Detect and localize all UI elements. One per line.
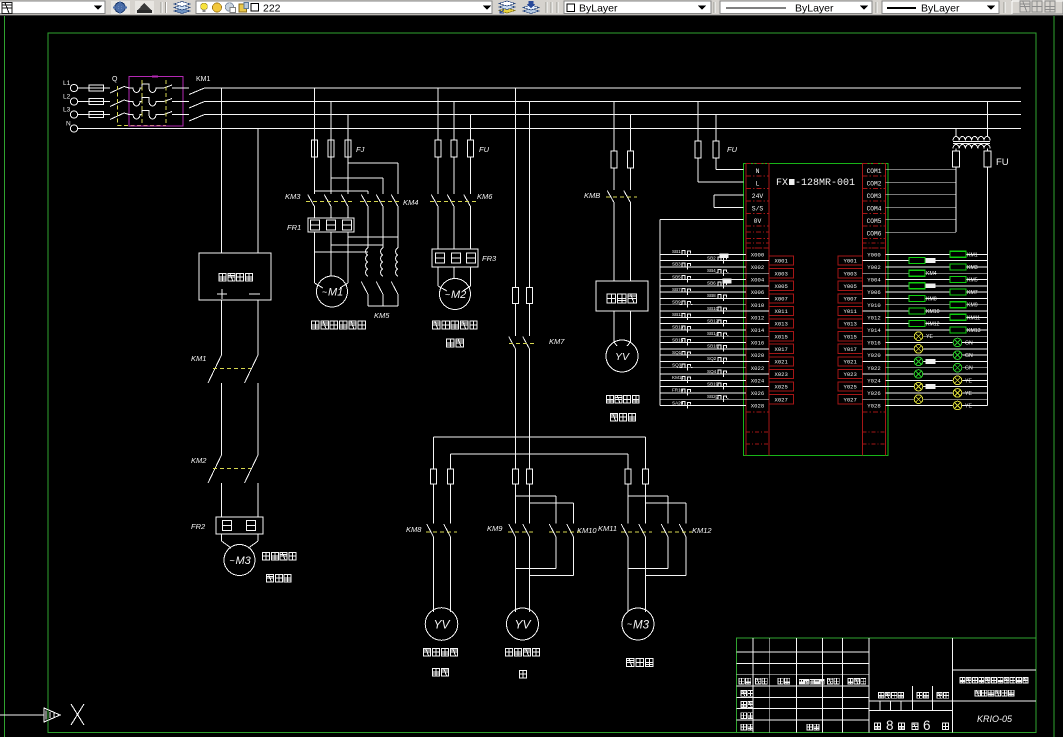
input wire row X6 with contact SB7 <box>660 291 746 293</box>
svg-text:Y012: Y012 <box>867 314 880 321</box>
svg-text:SB4: SB4 <box>707 268 716 273</box>
input wire row X3 with contact SB4 <box>660 272 769 274</box>
toolbar gear icon <box>111 1 130 14</box>
svg-text:X013: X013 <box>774 321 787 328</box>
fuses FJ <box>312 140 318 157</box>
junction block marker <box>723 278 732 283</box>
PLC X input terminals odd <box>769 256 794 265</box>
svg-text:8: 8 <box>886 718 894 733</box>
fuse L3 <box>78 114 89 116</box>
wires KM7 down <box>515 350 517 438</box>
svg-text:FX: FX <box>776 178 788 189</box>
fuses lower branches <box>431 469 437 484</box>
terminal N <box>70 125 77 132</box>
color control combo <box>564 1 711 14</box>
svg-text:KM12: KM12 <box>926 322 940 328</box>
fuses FU (M2) <box>435 140 441 157</box>
svg-text:-128MR-001: -128MR-001 <box>795 178 855 189</box>
svg-text:KM5: KM5 <box>374 311 390 320</box>
svg-text:SB16: SB16 <box>707 344 719 349</box>
motor M2 auxiliary compressor <box>440 279 471 310</box>
svg-text:~: ~ <box>230 556 235 566</box>
svg-text:X016: X016 <box>751 340 764 347</box>
svg-text:ByLayer: ByLayer <box>579 3 618 15</box>
svg-text:Y011: Y011 <box>843 308 857 315</box>
svg-text:SB2: SB2 <box>707 255 716 260</box>
svg-text:Y014: Y014 <box>867 327 881 334</box>
breaker linkage dashed <box>141 80 143 126</box>
layer tool icon 2 <box>523 9 539 14</box>
svg-text:FR10: FR10 <box>672 388 684 393</box>
svg-text:Y007: Y007 <box>843 296 856 303</box>
svg-text:Y022: Y022 <box>867 365 880 372</box>
svg-text:GN: GN <box>965 366 973 372</box>
PLC FX-128MR outline <box>744 164 888 456</box>
COM wires <box>886 169 957 171</box>
KM1 linkage <box>213 368 251 370</box>
svg-text:YE: YE <box>965 404 972 410</box>
wire battery out <box>221 300 223 355</box>
svg-text:COM5: COM5 <box>867 218 882 225</box>
layers stack icon <box>174 9 190 14</box>
svg-text:FJ: FJ <box>356 145 365 154</box>
svg-text:KM1: KM1 <box>967 252 978 258</box>
svg-text:X006: X006 <box>751 289 764 296</box>
svg-text:KM1: KM1 <box>191 354 206 363</box>
svg-text:Y016: Y016 <box>867 340 880 347</box>
drawing title text <box>960 678 965 683</box>
svg-text:KM10: KM10 <box>926 309 940 315</box>
terminal L2 <box>70 98 77 105</box>
wires KM11 to feeder motor <box>627 538 629 613</box>
svg-text:COM6: COM6 <box>867 230 882 237</box>
input wire row X5 with contact SB6 <box>660 285 769 287</box>
svg-text:SB12: SB12 <box>707 318 719 323</box>
svg-text:X003: X003 <box>774 270 787 277</box>
input wire row X12 with contact SB13 <box>660 329 746 331</box>
svg-text:L2: L2 <box>63 94 71 101</box>
svg-text:SB14: SB14 <box>707 331 719 336</box>
svg-text:M2: M2 <box>451 289 466 301</box>
svg-text:X015: X015 <box>774 333 787 340</box>
wire transformer primary taps <box>955 129 957 137</box>
output wire row Y21 indicator lamp <box>863 386 988 388</box>
svg-text:YE: YE <box>926 334 933 340</box>
svg-text:SQ1: SQ1 <box>672 350 682 355</box>
fuse FU (PLC L) <box>695 141 701 158</box>
svg-text:Y006: Y006 <box>867 289 880 296</box>
toolbar background <box>0 0 1063 16</box>
svg-text:KM11: KM11 <box>598 524 617 533</box>
wires KM8 to YV1 <box>433 538 435 613</box>
svg-text:KM8: KM8 <box>406 525 422 534</box>
fuse FU (transformer right) <box>984 151 991 167</box>
svg-text:COM2: COM2 <box>867 180 882 187</box>
svg-text:N: N <box>756 168 760 175</box>
svg-text:SB8: SB8 <box>707 293 716 298</box>
wire battery tap N <box>257 129 259 254</box>
svg-text:KM1: KM1 <box>196 76 211 83</box>
svg-text:X022: X022 <box>751 365 764 372</box>
svg-text:KM10: KM10 <box>577 526 597 535</box>
svg-text:KM2: KM2 <box>191 456 207 465</box>
output wire row Y20 indicator lamp <box>886 379 988 381</box>
pilot solenoid valve YV1 <box>425 608 458 641</box>
svg-text:X001: X001 <box>774 258 788 265</box>
outer border right <box>1053 16 1055 737</box>
fuses (KM7 branch) <box>513 288 519 304</box>
svg-text:FU: FU <box>727 145 738 154</box>
bus L2 <box>222 101 1021 103</box>
svg-text:Y002: Y002 <box>867 264 880 271</box>
fuse FU (transformer left) <box>953 151 960 167</box>
svg-text:KM5: KM5 <box>967 278 978 284</box>
svg-text:Y017: Y017 <box>843 346 856 353</box>
input wire row X8 with contact SB9 <box>660 304 746 306</box>
svg-text:SQ4: SQ4 <box>707 369 717 374</box>
svg-text:SB20: SB20 <box>707 394 719 399</box>
separator <box>160 2 162 13</box>
outer border left <box>4 16 6 737</box>
svg-text:SB5: SB5 <box>672 274 681 279</box>
svg-text:X000: X000 <box>751 251 765 258</box>
input wire row X21 with contact SB19 <box>660 386 769 388</box>
svg-text:222: 222 <box>263 3 281 15</box>
output wire row Y0 coil KM1 <box>886 253 988 255</box>
separator <box>875 2 877 13</box>
PLC Y output terminals even <box>863 260 886 262</box>
svg-text:24V: 24V <box>752 193 764 200</box>
svg-text:KM9: KM9 <box>487 524 503 533</box>
svg-text:6: 6 <box>923 718 931 733</box>
svg-text:Y004: Y004 <box>867 277 881 284</box>
input wire row X4 with contact SB5 <box>660 279 746 281</box>
svg-text:SB13: SB13 <box>672 325 684 330</box>
svg-text:FR1: FR1 <box>287 223 301 232</box>
output wire row Y17 indicator lamp <box>863 360 988 362</box>
COM bus vertical <box>955 167 957 232</box>
24V S/S link bracket <box>714 194 744 196</box>
svg-text:KM13: KM13 <box>967 328 981 334</box>
svg-text:ByLayer: ByLayer <box>795 3 834 15</box>
svg-text:X014: X014 <box>751 327 765 334</box>
input wire row X22 with contact FR10 <box>660 392 746 394</box>
svg-text:X026: X026 <box>751 390 764 397</box>
svg-text:SQ3: SQ3 <box>672 363 682 368</box>
fuse L1 <box>78 87 89 89</box>
separator <box>1003 2 1005 13</box>
svg-text:Y001: Y001 <box>843 258 857 265</box>
svg-text:0V: 0V <box>754 218 762 225</box>
svg-text:X005: X005 <box>774 283 787 290</box>
svg-text:L3: L3 <box>63 107 71 114</box>
drop pair 3 <box>627 454 629 469</box>
svg-text:Y000: Y000 <box>867 251 881 258</box>
plot style button ByColor <box>1012 1 1063 14</box>
svg-text:KM8: KM8 <box>926 296 937 302</box>
output wire row Y12 coil KM13 <box>886 329 988 331</box>
output wire row Y9 coil KM10 <box>863 310 988 312</box>
svg-text:KM4: KM4 <box>403 198 418 207</box>
fuse L2 <box>78 101 89 103</box>
output wire row Y5 coil KM6 <box>863 285 988 287</box>
PLC left strip lower dashdot <box>746 431 769 433</box>
UCS icon X axis <box>0 714 44 716</box>
input wire row X9 with contact SB10 <box>660 310 769 312</box>
output wire row Y4 coil KM5 <box>886 279 988 281</box>
svg-text:Y021: Y021 <box>843 359 857 366</box>
svg-text:COM4: COM4 <box>867 205 882 212</box>
svg-text:Y024: Y024 <box>867 377 881 384</box>
svg-text:YE: YE <box>965 391 972 397</box>
output wire row Y16 indicator lamp <box>886 354 988 356</box>
electric gate valve YV2 <box>507 608 539 640</box>
svg-text:Y015: Y015 <box>843 333 856 340</box>
svg-text:Y027: Y027 <box>843 396 856 403</box>
output wire row Y10 coil KM11 <box>886 316 988 318</box>
svg-text:GN: GN <box>965 353 973 359</box>
svg-text:SB19: SB19 <box>707 381 719 386</box>
circuit breaker QF magenta enclosure <box>129 77 183 127</box>
wire transformer secondary legs <box>955 149 957 152</box>
svg-text:YE: YE <box>965 378 972 384</box>
wire battery tap L1 <box>221 88 223 253</box>
UCS icon X label <box>71 704 84 725</box>
title row labels design/draw/check/process <box>741 690 746 696</box>
wires KM4 feed <box>348 162 398 164</box>
KM10 bypass wires <box>516 495 557 497</box>
svg-text:KM7: KM7 <box>967 290 978 296</box>
svg-text:Y013: Y013 <box>843 321 856 328</box>
terminal L3 <box>70 111 77 118</box>
svg-text:SB1: SB1 <box>672 249 681 254</box>
input wire row X11 with contact SB12 <box>660 323 769 325</box>
output wire row Y13 indicator lamp <box>863 335 988 337</box>
input wire row X19 with contact SQ4 <box>660 373 769 375</box>
linetype control combo <box>720 1 872 14</box>
svg-text:KM4: KM4 <box>926 271 937 277</box>
svg-text:Y010: Y010 <box>867 302 881 309</box>
bus L3 <box>222 114 1021 116</box>
svg-text:M1: M1 <box>328 287 343 299</box>
svg-text:Y005: Y005 <box>843 283 856 290</box>
layer combo <box>196 1 492 14</box>
input wire row X10 with contact SB11 <box>660 316 746 318</box>
svg-text:KM3: KM3 <box>967 265 978 271</box>
svg-text:COM3: COM3 <box>867 193 882 200</box>
svg-text:M3: M3 <box>633 620 650 632</box>
wires FU to KM6 <box>437 157 439 194</box>
svg-text:SB11: SB11 <box>672 312 683 317</box>
feeder motor M3 <box>622 608 654 640</box>
input wire row X23 with contact SB20 <box>660 398 769 400</box>
lineweight control combo <box>882 1 999 14</box>
wire M1 taps <box>314 88 316 140</box>
wire FU tap L3 <box>715 115 717 142</box>
svg-text:S/S: S/S <box>752 205 764 212</box>
svg-text:L1: L1 <box>63 80 71 87</box>
sheet count text <box>874 723 880 729</box>
svg-text:KM3: KM3 <box>285 192 301 201</box>
svg-text:SB7: SB7 <box>672 287 681 292</box>
svg-text:KM6: KM6 <box>477 192 493 201</box>
input wire row X14 with contact SB15 <box>660 342 746 344</box>
svg-text:X021: X021 <box>774 359 788 366</box>
svg-text:SB10: SB10 <box>707 306 719 311</box>
KM6 linkage <box>430 201 476 203</box>
input wire row X7 with contact SB8 <box>660 297 769 299</box>
wire M2 taps <box>437 88 439 140</box>
svg-text:ByLayer: ByLayer <box>921 3 960 15</box>
PLC X input terminals even <box>746 260 769 262</box>
svg-text:FR2: FR2 <box>191 522 206 531</box>
input wire row X16 with contact SQ1 <box>660 354 746 356</box>
junction block marker <box>720 254 729 259</box>
svg-text:FR3: FR3 <box>482 254 497 263</box>
title block left table <box>752 638 754 733</box>
output wire row Y6 coil KM7 <box>886 291 988 293</box>
input wire row X24 with contact SA20 <box>660 405 746 407</box>
svg-text:X017: X017 <box>774 346 787 353</box>
svg-text:YV: YV <box>433 618 450 632</box>
svg-text:Y023: Y023 <box>843 371 856 378</box>
wires KM9 to YV2 <box>515 538 517 613</box>
toolbar dark icon <box>135 1 154 14</box>
input wire row X20 with contact KM11 <box>660 379 746 381</box>
svg-text:Q: Q <box>112 76 118 83</box>
svg-text:KM9: KM9 <box>967 303 978 309</box>
svg-text:X020: X020 <box>751 352 765 359</box>
output wire row Y19 indicator lamp <box>863 373 988 375</box>
svg-text:X025: X025 <box>774 384 787 391</box>
output wire row Y23 indicator lamp <box>863 398 988 400</box>
workspace combo <box>0 1 105 14</box>
contactor KM5 contacts <box>361 282 368 296</box>
PLC left terminal strip <box>745 164 747 456</box>
wires to KM7 <box>515 304 517 337</box>
drop pair 2 <box>515 437 517 469</box>
svg-text:KM11: KM11 <box>967 315 980 321</box>
svg-text:X011: X011 <box>774 308 788 315</box>
output wire row Y15 indicator lamp <box>863 348 988 350</box>
svg-text:SQ2: SQ2 <box>707 356 717 361</box>
bus L1 <box>222 87 1021 89</box>
wires motor to reactor links <box>348 236 398 238</box>
solenoid valve YV (two-position three-way) <box>606 340 638 372</box>
output bus vertical <box>987 167 989 406</box>
battery pack box <box>199 253 271 300</box>
svg-text:SB9: SB9 <box>672 300 681 305</box>
svg-text:X027: X027 <box>774 396 787 403</box>
svg-text:X012: X012 <box>751 314 764 321</box>
output wire row Y22 indicator lamp <box>886 392 988 394</box>
svg-text:X007: X007 <box>774 296 787 303</box>
svg-text:X004: X004 <box>751 277 765 284</box>
input wire row X0 with contact SB1 <box>660 253 746 255</box>
fuses (decoder branch) <box>611 151 617 168</box>
separator <box>545 2 547 13</box>
svg-text:FU: FU <box>996 157 1009 168</box>
svg-text:Y028: Y028 <box>867 403 880 410</box>
PLC right strip lower dashdot <box>863 431 886 433</box>
KM4 linkage <box>360 201 402 203</box>
input wire row X13 with contact SB14 <box>660 335 769 337</box>
output wire row Y1 coil KM2 <box>863 260 988 262</box>
svg-text:KMB: KMB <box>584 191 600 200</box>
distribution wire A <box>434 436 646 438</box>
svg-text:Y020: Y020 <box>867 352 881 359</box>
input wire row X2 with contact SB3 <box>660 266 746 268</box>
input wire row X15 with contact SB16 <box>660 348 769 350</box>
layer tool icon 1 <box>499 8 515 13</box>
svg-text:M3: M3 <box>236 555 252 567</box>
wires to decoder <box>613 203 615 281</box>
KM12 bypass wires <box>628 495 668 497</box>
output wire row Y24 indicator lamp <box>886 405 988 407</box>
output wire row Y3 coil KM4 <box>863 272 988 274</box>
distribution wire B <box>451 453 629 455</box>
svg-text:COM1: COM1 <box>867 168 882 175</box>
wire KM7 taps <box>515 88 517 287</box>
PLC Y output terminals odd <box>838 256 863 265</box>
KM3 linkage <box>306 201 352 203</box>
svg-text:KM12: KM12 <box>692 526 712 535</box>
PLC right terminal strip <box>862 164 864 456</box>
motor M1 main compressor <box>317 276 348 307</box>
title block outline <box>736 638 1036 733</box>
input wire row X17 with contact SQ2 <box>660 360 769 362</box>
wires decoder to valve <box>613 311 615 342</box>
input wire row X1 with contact SB2 <box>660 260 769 262</box>
svg-text:SB3: SB3 <box>672 262 681 267</box>
svg-text:SB6: SB6 <box>707 281 716 286</box>
output wire row Y2 coil KM3 <box>886 266 988 268</box>
separator <box>713 2 715 13</box>
svg-text:X002: X002 <box>751 264 764 271</box>
KM10 rejoin wires <box>555 538 557 569</box>
fuse FU (PLC N) <box>713 141 719 158</box>
input wire row X18 with contact SQ3 <box>660 367 746 369</box>
svg-text:GN: GN <box>965 341 973 347</box>
svg-text:X028: X028 <box>751 403 764 410</box>
svg-text:N: N <box>66 121 71 128</box>
drop pair 1 <box>433 437 435 469</box>
wire FU tap L2 <box>697 102 699 142</box>
svg-text:KM7: KM7 <box>549 337 565 346</box>
output wire row Y14 indicator lamp <box>886 342 988 344</box>
wires FR1 to M1 <box>314 232 316 283</box>
svg-text:SB15: SB15 <box>672 337 684 342</box>
output wire row Y8 coil KM9 <box>886 304 988 306</box>
output wire row Y11 coil KM12 <box>863 323 988 325</box>
svg-text:Y003: Y003 <box>843 270 856 277</box>
wire N row <box>78 128 1021 130</box>
control transformer <box>953 136 990 140</box>
wires FJ to KM3 <box>314 157 316 194</box>
svg-text:~: ~ <box>445 290 450 300</box>
svg-text:YV: YV <box>615 351 630 363</box>
svg-text:Y025: Y025 <box>843 384 856 391</box>
decoder box <box>596 281 648 311</box>
breaker poles <box>124 84 183 93</box>
wire decoder taps <box>613 102 615 152</box>
wire to M3 <box>221 534 223 541</box>
Q linkage dashed <box>117 86 119 126</box>
svg-text:KM11: KM11 <box>672 375 684 380</box>
0V wire to input common bus <box>660 219 744 221</box>
svg-text:X010: X010 <box>751 302 765 309</box>
title header row labels <box>739 678 744 684</box>
